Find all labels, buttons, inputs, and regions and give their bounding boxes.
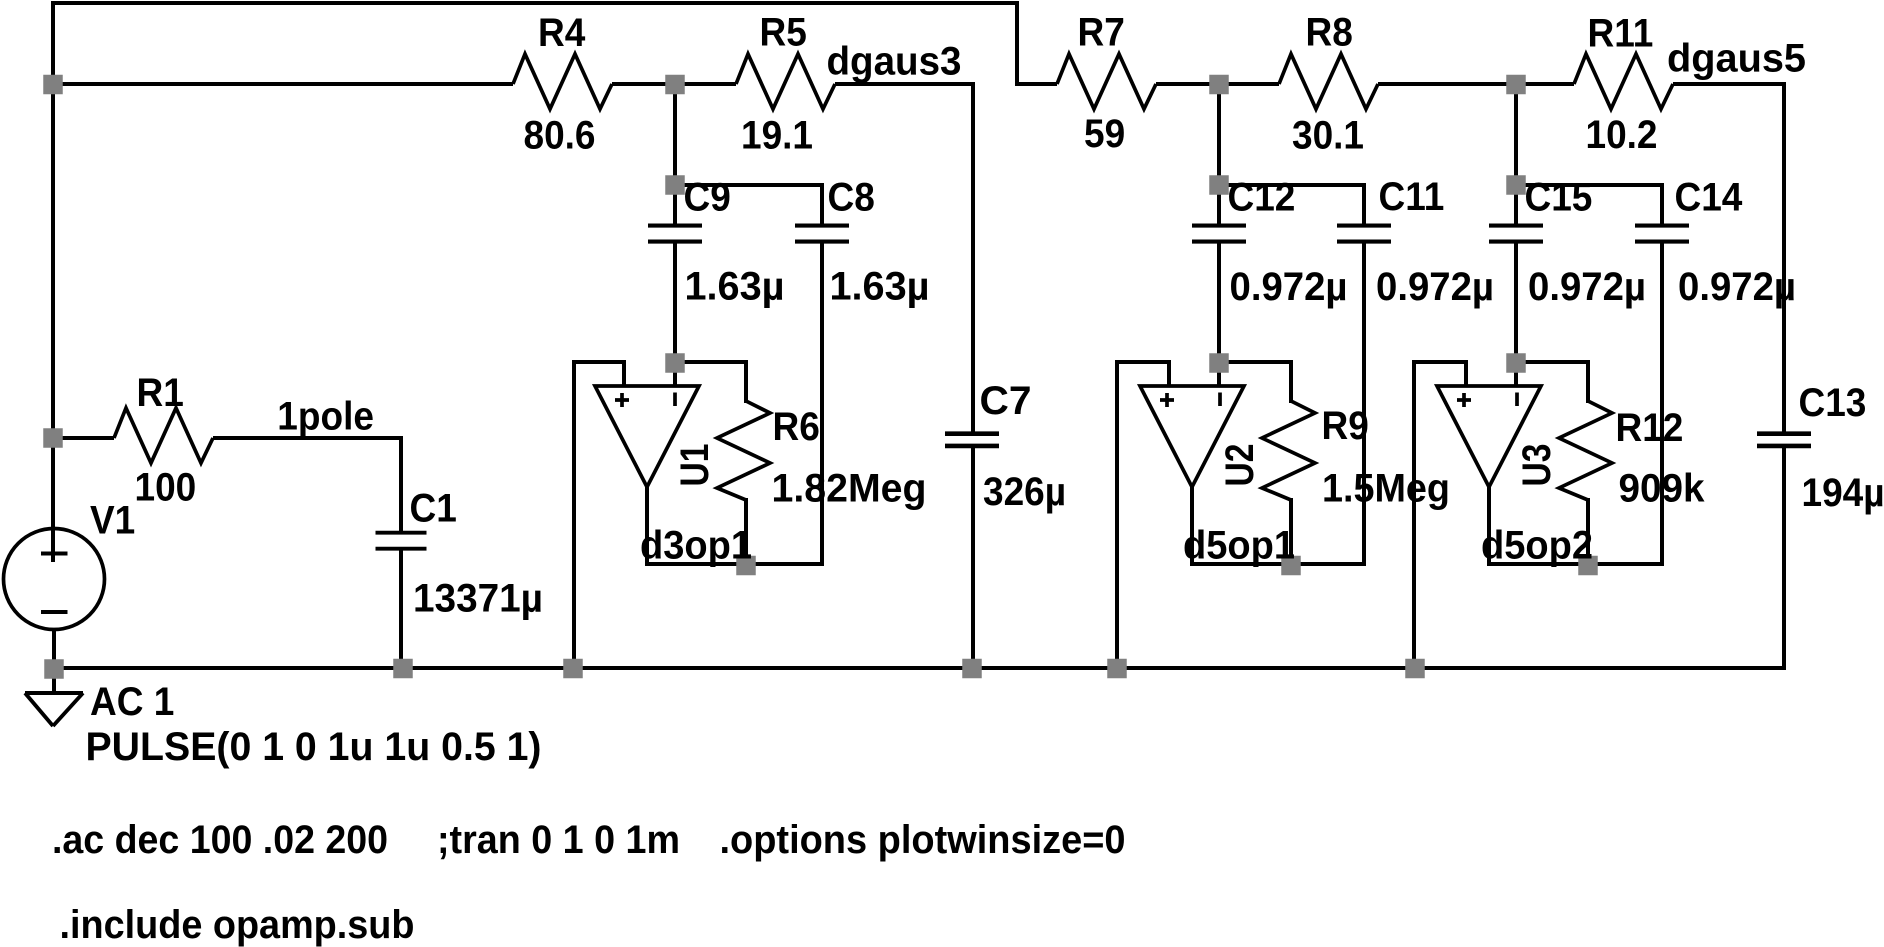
wire C9 node to C8 top — [675, 185, 822, 226]
capacitor C11 — [1337, 224, 1391, 228]
svg-text:C14: C14 — [1675, 176, 1744, 220]
svg-text:0.972µ: 0.972µ — [1230, 265, 1348, 309]
svg-text:1.82Meg: 1.82Meg — [772, 467, 927, 511]
svg-text:.ac dec 100 .02 200: .ac dec 100 .02 200 — [52, 818, 388, 862]
wire ground rail to U3 non-inverting input — [1414, 362, 1466, 670]
svg-text:U1: U1 — [673, 444, 717, 487]
junction U2 inverting node — [1209, 353, 1229, 373]
wire R5 to C7 top (node dgaus3) — [835, 84, 973, 433]
wire U3 output to C14 (node d5op2) — [1489, 485, 1664, 564]
junction R4-R5 node — [665, 75, 685, 95]
wire R11 to C13 top (node dgaus5) — [1673, 84, 1784, 433]
wire node to C12 top — [1217, 84, 1221, 226]
junction V1 ground node — [44, 659, 64, 679]
capacitor C7 — [945, 431, 999, 436]
capacitor C14 — [1635, 224, 1689, 228]
junction R8-R11 node — [1506, 75, 1526, 95]
wire R8 to R11 through node — [1378, 82, 1574, 86]
wire C15 node to C14 top — [1516, 185, 1662, 226]
wire C12 node to C11 top — [1219, 185, 1364, 226]
junction C15 top node — [1506, 175, 1526, 195]
svg-text:d5op2: d5op2 — [1481, 524, 1593, 568]
wire left rail to R4 — [51, 82, 513, 86]
resistor R1 — [114, 408, 213, 463]
wire ground rail to U2 non-inverting input — [1117, 362, 1169, 670]
resistor R9 — [1262, 401, 1315, 500]
wire U3 inverting node to R12 top — [1516, 362, 1588, 403]
svg-text:R5: R5 — [760, 11, 807, 55]
svg-text:C11: C11 — [1379, 175, 1445, 219]
resistor R7 — [1057, 54, 1156, 109]
svg-text:PULSE(0 1 0 1u 1u 0.5 1): PULSE(0 1 0 1u 1u 0.5 1) — [86, 725, 542, 769]
junction U3 inverting node — [1506, 353, 1526, 373]
capacitor C13 — [1757, 431, 1811, 436]
capacitor C8 — [795, 224, 849, 228]
svg-text:dgaus5: dgaus5 — [1667, 37, 1806, 81]
svg-text:;tran 0 1 0 1m: ;tran 0 1 0 1m — [437, 818, 680, 862]
svg-text:V1: V1 — [90, 499, 135, 543]
svg-text:30.1: 30.1 — [1292, 114, 1364, 158]
U1 non-inverting input marker — [615, 393, 629, 407]
wire C13 bottom to ground rail — [1782, 446, 1786, 668]
junction U3 output node — [1578, 556, 1598, 576]
U3 non-inverting input marker — [1457, 393, 1471, 407]
svg-text:1.63µ: 1.63µ — [685, 265, 785, 309]
svg-text:59: 59 — [1084, 112, 1125, 156]
V1 minus marker — [41, 610, 68, 614]
wire C15 bottom to U3 inverting input — [1514, 242, 1518, 386]
svg-text:10.2: 10.2 — [1586, 113, 1658, 157]
svg-text:C7: C7 — [980, 379, 1032, 423]
junction U1 output node — [736, 556, 756, 576]
junction U1 inverting node — [665, 353, 685, 373]
svg-text:13371µ: 13371µ — [413, 577, 543, 621]
svg-text:1.5Meg: 1.5Meg — [1322, 467, 1450, 511]
svg-text:U2: U2 — [1218, 444, 1262, 487]
U3 inverting input marker — [1515, 393, 1519, 407]
svg-text:C1: C1 — [410, 487, 457, 531]
op-amp U2 body — [1140, 386, 1244, 487]
U2 inverting input marker — [1218, 393, 1222, 407]
svg-text:C13: C13 — [1799, 381, 1867, 425]
wire C9 bottom to U1 inverting input — [673, 242, 677, 386]
wire R6 bottom to output — [744, 498, 748, 566]
wire R9 bottom to output — [1289, 498, 1293, 566]
svg-text:d5op1: d5op1 — [1183, 524, 1295, 568]
U1 inverting input marker — [673, 393, 677, 407]
svg-text:194µ: 194µ — [1802, 471, 1884, 515]
svg-text:R8: R8 — [1306, 11, 1353, 55]
wire C1 bottom to ground rail — [399, 547, 403, 668]
voltage source V1 body — [4, 529, 105, 630]
svg-text:C8: C8 — [828, 176, 875, 220]
wire C7 bottom to ground rail — [971, 446, 975, 668]
svg-text:909k: 909k — [1619, 467, 1706, 511]
wire node to C15 top — [1514, 84, 1518, 226]
svg-text:19.1: 19.1 — [741, 114, 813, 158]
wire U1 output to C8 (node d3op1) — [647, 485, 824, 564]
wire R12 bottom to output — [1586, 498, 1590, 566]
wire C12 bottom to U2 inverting input — [1217, 242, 1221, 386]
capacitor C15 — [1489, 224, 1543, 228]
svg-text:R7: R7 — [1078, 11, 1125, 55]
junction C1 ground node — [393, 659, 413, 679]
wire R1 to C1 top (node 1pole) — [213, 438, 401, 533]
resistor R12 — [1559, 401, 1612, 500]
svg-text:0.972µ: 0.972µ — [1528, 265, 1646, 309]
svg-text:R9: R9 — [1322, 404, 1369, 448]
junction U1 ground node — [563, 659, 583, 679]
wire C11 bottom to U2 output — [1362, 242, 1366, 566]
svg-text:R4: R4 — [538, 11, 586, 55]
junction C12 top node — [1209, 175, 1229, 195]
resistor R11 — [1574, 54, 1673, 109]
wire C14 bottom to U3 output — [1660, 242, 1664, 566]
V1 plus marker — [41, 552, 68, 556]
wire ground rail to U1 non-inverting input — [574, 362, 624, 670]
svg-text:0.972µ: 0.972µ — [1376, 265, 1494, 309]
junction U2 output node — [1281, 556, 1301, 576]
op-amp U1 body — [595, 386, 699, 487]
junction U3 ground node — [1405, 659, 1425, 679]
wire C8 bottom to U1 output — [820, 242, 824, 566]
svg-text:326µ: 326µ — [983, 470, 1066, 514]
svg-text:R1: R1 — [137, 371, 184, 415]
svg-text:dgaus3: dgaus3 — [827, 40, 962, 84]
svg-text:R11: R11 — [1588, 12, 1654, 56]
U2 non-inverting input marker — [1160, 393, 1174, 407]
svg-text:100: 100 — [135, 466, 197, 510]
svg-text:AC 1: AC 1 — [90, 680, 174, 724]
wire ground rail — [51, 666, 1786, 670]
svg-text:80.6: 80.6 — [524, 114, 596, 158]
junction R7-R8 node — [1209, 75, 1229, 95]
wire U1 inverting node to R6 top — [675, 362, 746, 403]
junction C7 ground node — [962, 659, 982, 679]
svg-text:1pole: 1pole — [277, 395, 374, 439]
svg-text:1.63µ: 1.63µ — [830, 265, 930, 309]
svg-text:.options plotwinsize=0: .options plotwinsize=0 — [720, 818, 1126, 862]
svg-text:d3op1: d3op1 — [640, 524, 752, 568]
resistor R5 — [736, 54, 835, 109]
op-amp U3 body — [1437, 386, 1541, 487]
junction V1-R1 node — [43, 428, 63, 448]
wire V1 plus to R1 — [53, 436, 114, 440]
ground — [25, 693, 83, 726]
wire node to C9 top — [673, 84, 677, 226]
capacitor C12 — [1192, 224, 1246, 228]
svg-text:.include opamp.sub: .include opamp.sub — [60, 903, 415, 947]
svg-text:R12: R12 — [1616, 406, 1684, 450]
wire V1 minus to ground — [52, 628, 56, 692]
wire U2 output to C11 (node d5op1) — [1192, 485, 1366, 564]
wire R4 to R5 through node — [612, 82, 736, 86]
junction input/left rail — [43, 75, 63, 95]
svg-text:C12: C12 — [1228, 176, 1296, 220]
resistor R8 — [1279, 54, 1378, 109]
svg-text:0.972µ: 0.972µ — [1678, 265, 1796, 309]
capacitor C9 — [648, 224, 702, 228]
wire R7 to R8 through node — [1156, 82, 1279, 86]
junction C9 top node — [665, 175, 685, 195]
svg-text:C15: C15 — [1525, 176, 1593, 220]
junction U2 ground node — [1107, 659, 1127, 679]
svg-text:R6: R6 — [773, 405, 820, 449]
wire U2 inverting node to R9 top — [1219, 362, 1291, 403]
capacitor C1 — [376, 531, 427, 535]
wire input net: left rail, top rail, drop to R7 — [53, 3, 1057, 562]
svg-text:U3: U3 — [1515, 444, 1559, 487]
resistor R6 — [717, 401, 770, 500]
resistor R4 — [513, 54, 612, 109]
svg-text:C9: C9 — [684, 176, 731, 220]
